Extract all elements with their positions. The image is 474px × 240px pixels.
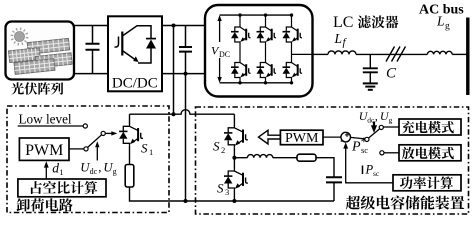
PWM box (supercap) xyxy=(280,130,323,146)
summing junction xyxy=(341,132,351,142)
svg-text:,: , xyxy=(98,161,101,175)
wire summing junction to switch pivot xyxy=(351,137,365,139)
switch blade to charge mode xyxy=(369,129,380,138)
label guangfuzhenlie PV array xyxy=(11,82,63,94)
svg-text:dc: dc xyxy=(90,167,98,176)
svg-text:S: S xyxy=(217,181,224,196)
duty cycle calculation box xyxy=(18,179,106,197)
IGBT Q5 bottom xyxy=(257,61,277,79)
label Lg xyxy=(436,14,450,32)
svg-text:Low level: Low level xyxy=(19,112,72,127)
svg-text:,: , xyxy=(375,109,378,123)
wire contact to discharge mode box xyxy=(384,152,399,154)
inductor L (supercap) xyxy=(247,155,272,158)
wire to S2 collector xyxy=(233,114,235,126)
svg-text:S: S xyxy=(141,141,148,156)
svg-text:PWM: PWM xyxy=(285,131,319,146)
label S3 xyxy=(217,181,229,198)
wire inductor to resistor xyxy=(273,157,297,159)
photovoltaic array PV xyxy=(6,22,75,80)
arrow Udc Ug down to switch xyxy=(373,122,375,128)
svg-text:LC: LC xyxy=(333,14,353,31)
wire midpoint to inductor xyxy=(234,157,247,159)
arrow Udc Ug up to switch xyxy=(96,146,98,161)
wire low level with contact xyxy=(18,125,83,127)
ground symbol xyxy=(363,83,378,89)
wire bottom rail PV to DC/DC xyxy=(74,73,108,75)
label LC filter xyxy=(333,14,398,31)
svg-text:d: d xyxy=(52,161,59,176)
IGBT Q2 top xyxy=(257,26,277,44)
charge mode box xyxy=(399,119,461,135)
IGBT Q4 bottom xyxy=(231,61,251,79)
transistor S2 xyxy=(224,125,248,147)
inductor Lf xyxy=(328,51,356,55)
resistor R1 xyxy=(125,165,134,188)
inverter leg 1 wire xyxy=(239,15,241,83)
IGBT Q3 top xyxy=(283,26,303,44)
arrow to S1 gate xyxy=(105,132,112,134)
VDC measurement arrow xyxy=(211,15,230,83)
capacitor C2 (DC link) xyxy=(179,26,192,74)
wire right bus down to lower rail xyxy=(185,74,187,201)
svg-text:2: 2 xyxy=(221,145,225,155)
wire PWM to switch contact xyxy=(69,148,84,150)
transistor S1 xyxy=(119,114,143,146)
wire S1 to resistor xyxy=(129,146,131,165)
wire Lg to AC bus xyxy=(452,53,466,55)
wire resistor to bottom rail xyxy=(130,187,335,201)
svg-text:P: P xyxy=(351,140,361,155)
IGBT Q1 top xyxy=(231,26,251,44)
node midpoint junction xyxy=(232,156,236,160)
DC/DC converter U1 xyxy=(108,16,162,91)
transistor S3 xyxy=(224,169,248,191)
inverter internal top rail xyxy=(220,14,293,16)
inverter internal bottom rail xyxy=(220,82,293,84)
wire contact to charge mode box xyxy=(383,126,399,128)
wire top rail PV to DC/DC xyxy=(74,25,108,27)
svg-text:1: 1 xyxy=(149,147,153,157)
label supercapacitor energy storage device xyxy=(346,196,465,210)
three-phase slash marks xyxy=(386,47,406,62)
unloading circuit dashed box xyxy=(7,106,169,213)
label S1 xyxy=(141,141,153,158)
svg-text:g: g xyxy=(389,116,393,125)
wire hop over right bus xyxy=(174,110,235,115)
wire S1 collector rail xyxy=(130,113,174,115)
wire inverter output xyxy=(292,53,313,55)
supercapacitor C3 xyxy=(326,177,342,182)
AC bus bar xyxy=(466,18,469,96)
svg-text:C: C xyxy=(386,66,397,82)
label Udc, Ug xyxy=(80,161,116,177)
svg-text:PWM: PWM xyxy=(25,142,63,159)
wire power calc to summing junction xyxy=(346,146,393,183)
capacitor C1 (PV side) xyxy=(86,26,100,74)
wire top rail DC/DC to inverter xyxy=(162,25,205,27)
svg-text:S: S xyxy=(213,139,220,154)
wire Lf to Lg xyxy=(356,53,427,55)
node junction top rail / left bus xyxy=(172,24,176,28)
open arrow PWM to gates xyxy=(259,130,281,144)
svg-text:AC bus: AC bus xyxy=(419,3,464,18)
resistor R2 xyxy=(297,154,316,161)
inverter leg 2 wire xyxy=(265,15,267,83)
discharge mode box xyxy=(399,145,461,161)
wire S2 to S3 xyxy=(233,147,235,168)
wire inverter to Lf xyxy=(313,53,329,55)
svg-text:DC/DC: DC/DC xyxy=(112,76,158,92)
wire PWM to summing junction xyxy=(323,136,341,138)
svg-text:g: g xyxy=(445,22,450,32)
wire resistor to supercap xyxy=(316,158,334,178)
svg-text:3: 3 xyxy=(225,187,229,197)
switch blade S xyxy=(88,135,102,148)
wire supercap to bottom rail xyxy=(333,182,335,201)
label Psc xyxy=(363,163,380,179)
svg-text:L: L xyxy=(334,31,343,46)
wire S3 to bottom rail xyxy=(233,191,235,202)
discharge contact xyxy=(380,151,384,155)
svg-text:DC: DC xyxy=(219,50,230,59)
label Lf xyxy=(334,31,348,49)
label d1 xyxy=(52,161,63,178)
inverter box xyxy=(205,5,313,97)
supercapacitor storage dashed box xyxy=(196,107,469,214)
svg-text:sc: sc xyxy=(373,169,380,178)
svg-text:1: 1 xyxy=(59,167,63,177)
IGBT Q6 bottom xyxy=(283,61,303,79)
power calculation box xyxy=(393,175,461,191)
label S2 xyxy=(213,139,225,156)
node bottom rail / right bus xyxy=(184,199,188,203)
label unloading circuit xyxy=(17,198,73,211)
node junction bottom rail / right bus xyxy=(184,72,188,76)
inductor Lg xyxy=(427,51,452,54)
capacitor C filter branch xyxy=(363,54,378,83)
inverter leg 3 wire xyxy=(291,15,293,83)
label Udc, Ug (supercap) xyxy=(359,109,393,125)
arrow d1 up to PWM xyxy=(45,166,47,179)
wire bottom rail DC/DC to inverter xyxy=(162,73,205,75)
svg-text:g: g xyxy=(113,167,117,176)
PWM box (unloading) xyxy=(19,138,69,160)
label Psc* xyxy=(351,134,368,155)
wire left bus down to unloading circuit xyxy=(173,26,175,115)
